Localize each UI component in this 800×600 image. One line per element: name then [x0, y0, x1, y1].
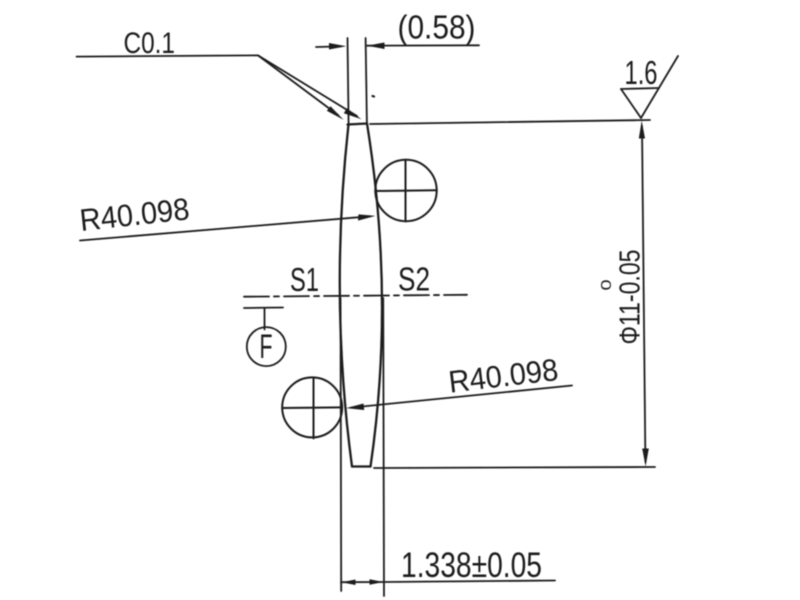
optical axis centerline [244, 295, 467, 297]
center thickness dimension line between arrows [341, 581, 384, 583]
extension line left of center-thickness [340, 298, 343, 591]
radius callout lower arrowhead [346, 404, 364, 411]
surface finish symbol left leg [621, 89, 641, 118]
radius callout upper leader line [80, 216, 370, 240]
dimension (0.58) text [398, 9, 476, 46]
svg-text:S2: S2 [398, 261, 430, 298]
dimension (0.58) left arrowhead [329, 43, 346, 50]
diameter dimension line [642, 126, 645, 462]
datum letter F [260, 328, 273, 366]
chamfer leader arrowhead right [344, 108, 362, 119]
surface finish value 1.6 [625, 54, 658, 91]
chamfer callout C0.1 text [124, 27, 176, 60]
radius callout lower leader line [351, 386, 572, 408]
surface finish symbol bar [621, 88, 659, 89]
radius callout R40.098 upper text [78, 191, 191, 238]
svg-text:R40.098: R40.098 [78, 191, 191, 238]
center thickness right arrowhead [370, 579, 384, 585]
polish target lower cross vertical [313, 377, 315, 438]
chamfer leader line to right corner [258, 55, 357, 116]
polish target circle lower [282, 377, 342, 437]
center thickness text 1.338 +/- 0.05 [401, 546, 542, 585]
svg-text:Φ11-0.05: Φ11-0.05 [615, 250, 647, 345]
center thickness dimension line right extension [384, 581, 555, 583]
diameter dimension top arrowhead [639, 121, 645, 139]
radius callout upper arrowhead [358, 214, 376, 220]
diameter text phi 11 0/-0.05 rotated [598, 250, 647, 345]
svg-text:(0.58): (0.58) [398, 9, 476, 46]
top extension line from lens to diameter dimension [370, 120, 650, 124]
datum stem [264, 308, 266, 330]
diameter dimension bottom arrowhead [642, 449, 649, 467]
svg-text:1.338±0.05: 1.338±0.05 [401, 546, 542, 585]
datum circle F [247, 327, 286, 366]
surface label S2 [398, 261, 430, 298]
extension line right of edge-thickness [366, 38, 367, 124]
svg-text:F: F [260, 328, 273, 366]
center thickness left arrowhead [341, 580, 355, 586]
surface finish symbol check stroke [641, 56, 678, 118]
polish target upper cross horizontal [375, 189, 436, 192]
dimension (0.58) right line segment [367, 44, 479, 46]
chamfer leader arrowhead left [327, 106, 344, 120]
lens bottom edge [352, 465, 371, 467]
polish target upper cross vertical [405, 160, 407, 221]
lens top edge [348, 124, 368, 125]
dimension (0.58) left line segment [316, 45, 341, 48]
radius callout R40.098 lower text [447, 352, 560, 400]
bottom extension line from lens to diameter dimension [374, 467, 655, 468]
surface label S1 [290, 261, 319, 298]
polish target circle upper [375, 160, 436, 221]
lens surface S1 left arc [340, 125, 352, 467]
svg-text:C0.1: C0.1 [124, 27, 176, 60]
svg-text:1.6: 1.6 [625, 54, 658, 91]
datum bar [244, 307, 283, 310]
stray speck [373, 95, 375, 98]
extension line left of edge-thickness [348, 38, 349, 125]
extension line right of center-thickness [382, 298, 385, 596]
svg-text:S1: S1 [290, 261, 319, 298]
chamfer leader line to left corner [258, 55, 338, 115]
svg-text:0: 0 [598, 280, 615, 291]
chamfer callout horizontal leader line [77, 55, 259, 56]
dimension (0.58) right arrowhead [367, 43, 385, 50]
polish target lower cross horizontal [283, 406, 342, 409]
lens surface S2 right arc [367, 124, 382, 467]
